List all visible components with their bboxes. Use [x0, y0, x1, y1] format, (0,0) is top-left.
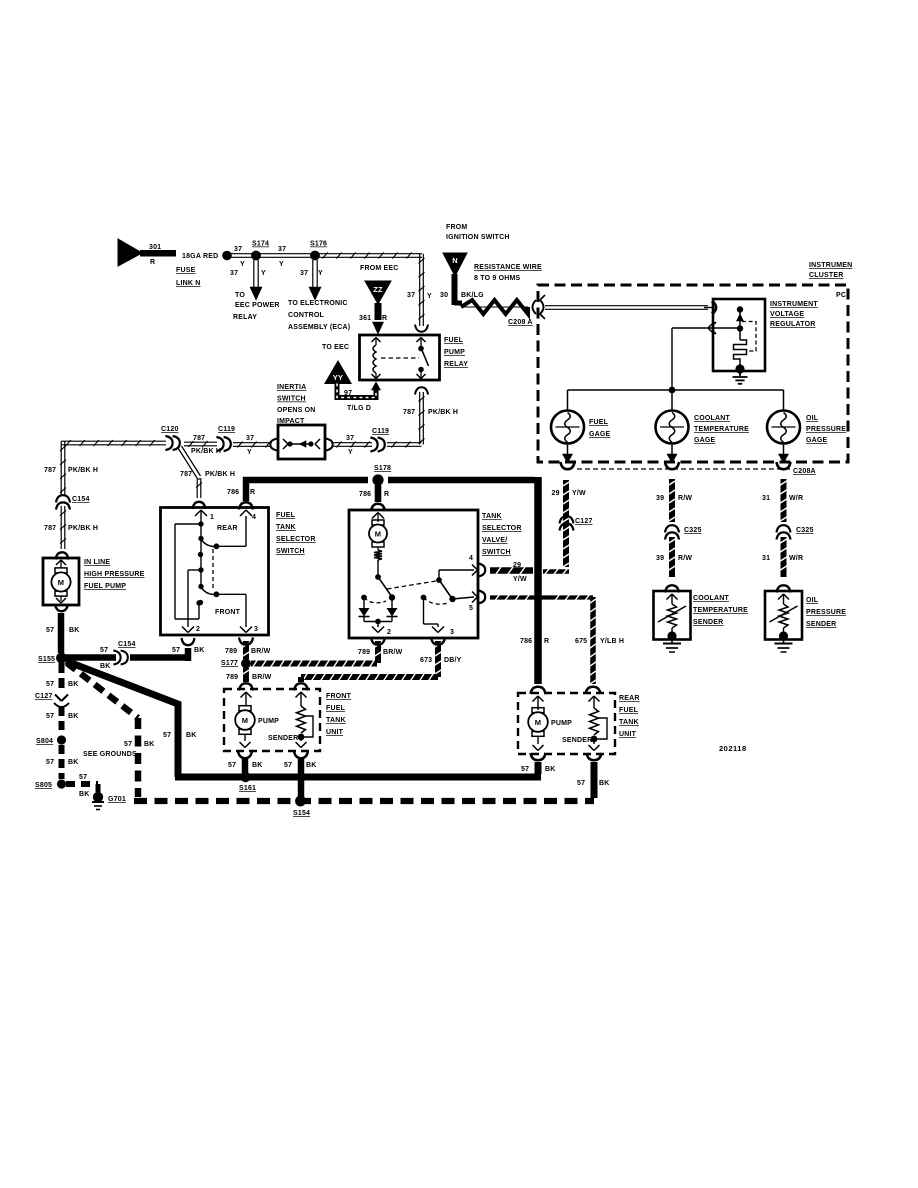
svg-text:C119: C119	[218, 426, 235, 433]
svg-text:C208A: C208A	[793, 468, 816, 475]
svg-text:S178: S178	[374, 465, 391, 472]
svg-text:Y/W: Y/W	[572, 490, 586, 497]
svg-text:789: 789	[226, 674, 238, 681]
svg-text:C120: C120	[161, 426, 179, 433]
svg-text:Y/LB H: Y/LB H	[600, 638, 624, 645]
svg-text:8 TO 9 OHMS: 8 TO 9 OHMS	[474, 275, 521, 282]
svg-text:INSTRUMENT: INSTRUMENT	[770, 301, 818, 308]
svg-text:REAR: REAR	[619, 695, 640, 702]
svg-text:S805: S805	[35, 782, 52, 789]
svg-text:LINK N: LINK N	[176, 280, 201, 287]
svg-text:57: 57	[172, 647, 180, 654]
svg-text:RESISTANCE WIRE: RESISTANCE WIRE	[474, 264, 542, 271]
svg-text:PK/BK H: PK/BK H	[428, 409, 458, 416]
svg-text:Y/W: Y/W	[513, 576, 527, 583]
svg-text:UNIT: UNIT	[619, 731, 637, 738]
svg-text:TO EEC: TO EEC	[322, 344, 349, 351]
svg-text:1: 1	[210, 514, 214, 521]
svg-text:TO ELECTRONIC: TO ELECTRONIC	[288, 300, 348, 307]
svg-text:BK: BK	[306, 762, 317, 769]
svg-text:31: 31	[762, 555, 770, 562]
svg-text:SENDER: SENDER	[562, 737, 592, 744]
svg-text:BK: BK	[68, 759, 79, 766]
svg-text:RELAY: RELAY	[444, 361, 468, 368]
svg-text:INSTRUMEN: INSTRUMEN	[809, 262, 852, 269]
svg-text:COOLANT: COOLANT	[694, 415, 731, 422]
svg-text:BK: BK	[79, 791, 90, 798]
svg-text:787: 787	[403, 409, 415, 416]
svg-text:97: 97	[344, 390, 352, 397]
svg-text:FROM EEC: FROM EEC	[360, 265, 399, 272]
svg-text:M: M	[242, 716, 248, 725]
svg-text:TANK: TANK	[619, 719, 639, 726]
svg-text:R: R	[382, 315, 387, 322]
svg-text:37: 37	[230, 270, 238, 277]
svg-text:TANK: TANK	[482, 513, 502, 520]
svg-text:57: 57	[46, 681, 54, 688]
svg-text:202118: 202118	[719, 744, 747, 753]
svg-text:C208 A: C208 A	[508, 319, 533, 326]
svg-text:DB/Y: DB/Y	[444, 657, 462, 664]
svg-text:IN LINE: IN LINE	[84, 559, 110, 566]
svg-text:29: 29	[552, 490, 560, 497]
svg-text:R: R	[250, 489, 255, 496]
svg-text:M: M	[375, 530, 381, 539]
svg-text:BK: BK	[545, 766, 556, 773]
svg-text:REAR: REAR	[217, 525, 238, 532]
svg-text:REGULATOR: REGULATOR	[770, 321, 816, 328]
svg-text:S155: S155	[38, 656, 55, 663]
svg-text:SELECTOR: SELECTOR	[276, 536, 316, 543]
svg-text:UNIT: UNIT	[326, 729, 344, 736]
svg-text:W/R: W/R	[789, 555, 803, 562]
svg-text:SWITCH: SWITCH	[482, 549, 511, 556]
svg-text:CLUSTER: CLUSTER	[809, 272, 843, 279]
svg-text:BR/W: BR/W	[252, 674, 272, 681]
svg-text:SENDER: SENDER	[693, 619, 723, 626]
svg-text:BK: BK	[252, 762, 263, 769]
svg-text:GAGE: GAGE	[694, 437, 716, 444]
svg-text:3: 3	[450, 629, 454, 636]
svg-text:C154: C154	[72, 496, 90, 503]
svg-text:FUEL: FUEL	[276, 512, 296, 519]
svg-text:M: M	[58, 578, 64, 587]
svg-text:Y: Y	[247, 449, 252, 456]
svg-text:PK/BK H: PK/BK H	[68, 467, 98, 474]
svg-text:FUEL: FUEL	[444, 337, 464, 344]
svg-text:PUMP: PUMP	[551, 720, 572, 727]
svg-text:5: 5	[469, 605, 473, 612]
svg-text:787: 787	[180, 471, 192, 478]
svg-text:BR/W: BR/W	[251, 648, 271, 655]
svg-text:789: 789	[225, 648, 237, 655]
svg-text:PUMP: PUMP	[444, 349, 465, 356]
svg-text:FUEL: FUEL	[326, 705, 346, 712]
svg-text:R: R	[384, 491, 389, 498]
svg-text:37: 37	[300, 270, 308, 277]
svg-text:INERTIA: INERTIA	[277, 384, 306, 391]
svg-text:GAGE: GAGE	[806, 437, 828, 444]
svg-text:ASSEMBLY (ECA): ASSEMBLY (ECA)	[288, 324, 350, 331]
svg-text:COOLANT: COOLANT	[693, 595, 730, 602]
svg-text:VALVE/: VALVE/	[482, 537, 507, 544]
svg-text:PK/BK H: PK/BK H	[68, 525, 98, 532]
svg-text:39: 39	[656, 555, 664, 562]
svg-text:SWITCH: SWITCH	[276, 548, 305, 555]
svg-text:FRONT: FRONT	[215, 609, 241, 616]
svg-text:29: 29	[513, 562, 521, 569]
svg-text:57: 57	[577, 780, 585, 787]
svg-text:SELECTOR: SELECTOR	[482, 525, 522, 532]
svg-text:S161: S161	[239, 785, 256, 792]
svg-text:BK: BK	[194, 647, 205, 654]
svg-text:TEMPERATURE: TEMPERATURE	[693, 607, 748, 614]
svg-text:786: 786	[359, 491, 371, 498]
svg-text:S176: S176	[310, 241, 327, 248]
svg-text:SENDER: SENDER	[268, 735, 298, 742]
svg-text:PC: PC	[836, 292, 846, 299]
svg-text:FUEL: FUEL	[589, 419, 609, 426]
svg-text:Y: Y	[279, 261, 284, 268]
svg-text:M: M	[535, 718, 541, 727]
svg-text:3: 3	[254, 626, 258, 633]
svg-text:EEC POWER: EEC POWER	[235, 302, 280, 309]
svg-text:S177: S177	[221, 660, 238, 667]
svg-text:R: R	[544, 638, 549, 645]
svg-text:4: 4	[252, 514, 256, 521]
svg-text:C325: C325	[684, 527, 702, 534]
svg-text:BK: BK	[144, 741, 155, 748]
svg-text:TEMPERATURE: TEMPERATURE	[694, 426, 749, 433]
svg-text:C325: C325	[796, 527, 814, 534]
svg-text:673: 673	[420, 657, 432, 664]
svg-text:BK: BK	[69, 627, 80, 634]
svg-text:VOLTAGE: VOLTAGE	[770, 311, 804, 318]
svg-text:787: 787	[193, 435, 205, 442]
svg-text:789: 789	[358, 649, 370, 656]
svg-text:57: 57	[46, 759, 54, 766]
svg-text:FUEL: FUEL	[619, 707, 639, 714]
svg-text:R: R	[150, 259, 155, 266]
svg-text:OPENS ON: OPENS ON	[277, 407, 316, 414]
svg-text:361: 361	[359, 315, 371, 322]
svg-text:57: 57	[521, 766, 529, 773]
svg-text:2: 2	[196, 626, 200, 633]
svg-text:RELAY: RELAY	[233, 314, 257, 321]
svg-text:57: 57	[163, 732, 171, 739]
svg-text:57: 57	[284, 762, 292, 769]
svg-text:787: 787	[44, 467, 56, 474]
svg-text:37: 37	[407, 292, 415, 299]
svg-text:FROM: FROM	[446, 224, 467, 231]
svg-text:T/LG D: T/LG D	[347, 405, 371, 412]
svg-text:OIL: OIL	[806, 597, 819, 604]
svg-text:PK/BK H: PK/BK H	[205, 471, 235, 478]
svg-text:787: 787	[44, 525, 56, 532]
svg-text:BK: BK	[186, 732, 197, 739]
svg-text:Y: Y	[261, 270, 266, 277]
svg-text:Y: Y	[240, 261, 245, 268]
svg-text:OIL: OIL	[806, 415, 819, 422]
svg-text:IGNITION SWITCH: IGNITION SWITCH	[446, 234, 510, 241]
svg-text:S174: S174	[252, 241, 269, 248]
svg-text:TANK: TANK	[326, 717, 346, 724]
svg-text:57: 57	[46, 627, 54, 634]
svg-text:C119: C119	[372, 428, 389, 435]
svg-text:G701: G701	[108, 796, 126, 803]
svg-text:PUMP: PUMP	[258, 718, 279, 725]
svg-text:57: 57	[228, 762, 236, 769]
svg-text:675: 675	[575, 638, 587, 645]
svg-text:BK: BK	[68, 681, 79, 688]
svg-text:57: 57	[124, 741, 132, 748]
svg-text:BK: BK	[100, 663, 111, 670]
svg-text:Y: Y	[318, 270, 323, 277]
svg-text:SENDER: SENDER	[806, 621, 836, 628]
svg-text:57: 57	[100, 647, 108, 654]
svg-text:786: 786	[227, 489, 239, 496]
svg-text:FUSE: FUSE	[176, 267, 196, 274]
svg-text:2: 2	[387, 629, 391, 636]
svg-text:FUEL PUMP: FUEL PUMP	[84, 583, 126, 590]
svg-text:N: N	[452, 256, 458, 265]
svg-text:W/R: W/R	[789, 495, 803, 502]
svg-text:37: 37	[246, 435, 254, 442]
svg-text:CONTROL: CONTROL	[288, 312, 325, 319]
svg-text:BK: BK	[599, 780, 610, 787]
svg-text:37: 37	[234, 246, 242, 253]
svg-text:30: 30	[440, 292, 448, 299]
svg-text:YY: YY	[333, 373, 343, 382]
svg-text:Y: Y	[427, 293, 432, 300]
svg-text:57: 57	[79, 774, 87, 781]
svg-text:BR/W: BR/W	[383, 649, 403, 656]
svg-text:C154: C154	[118, 641, 136, 648]
svg-text:PRESSURE: PRESSURE	[806, 426, 846, 433]
svg-text:Y: Y	[348, 449, 353, 456]
svg-text:57: 57	[46, 713, 54, 720]
svg-text:HIGH PRESSURE: HIGH PRESSURE	[84, 571, 145, 578]
svg-text:S804: S804	[36, 738, 53, 745]
svg-text:31: 31	[762, 495, 770, 502]
svg-text:TANK: TANK	[276, 524, 296, 531]
svg-text:SEE GROUNDS: SEE GROUNDS	[83, 751, 137, 758]
svg-text:SWITCH: SWITCH	[277, 396, 306, 403]
svg-text:PRESSURE: PRESSURE	[806, 609, 846, 616]
svg-text:FRONT: FRONT	[326, 693, 352, 700]
svg-text:786: 786	[520, 638, 532, 645]
svg-text:TO: TO	[235, 292, 245, 299]
svg-text:18GA RED: 18GA RED	[182, 253, 218, 260]
svg-text:4: 4	[469, 555, 473, 562]
svg-text:37: 37	[278, 246, 286, 253]
svg-text:ZZ: ZZ	[373, 285, 383, 294]
svg-text:C127: C127	[35, 693, 53, 700]
svg-text:39: 39	[656, 495, 664, 502]
svg-text:S154: S154	[293, 810, 310, 817]
svg-text:37: 37	[346, 435, 354, 442]
svg-text:BK: BK	[68, 713, 79, 720]
svg-text:GAGE: GAGE	[589, 431, 611, 438]
svg-text:R/W: R/W	[678, 495, 692, 502]
svg-text:301: 301	[149, 244, 161, 251]
svg-text:C127: C127	[575, 518, 593, 525]
svg-text:R/W: R/W	[678, 555, 692, 562]
